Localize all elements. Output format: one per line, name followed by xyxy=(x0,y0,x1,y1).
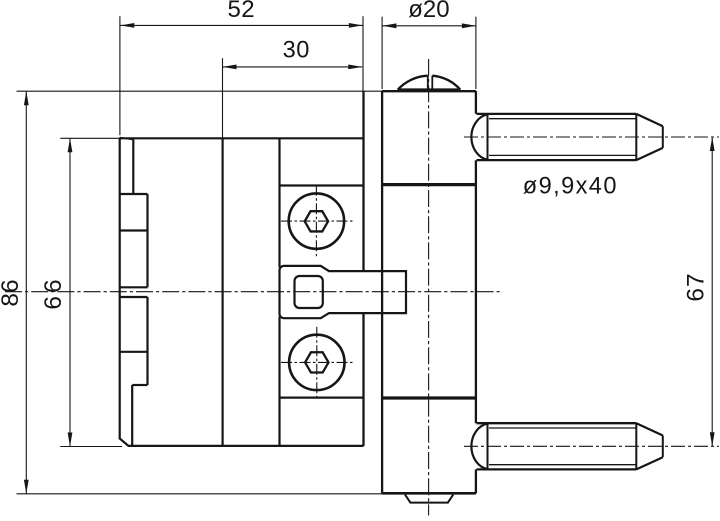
bottom pin centerline xyxy=(464,445,719,447)
dimension d20 line xyxy=(382,25,476,27)
body top edge xyxy=(120,137,364,139)
extension line x222 xyxy=(222,58,224,138)
boss top edge xyxy=(280,184,364,186)
body divider vertical x279 lower xyxy=(278,317,280,446)
dimension 52 line xyxy=(120,24,362,26)
dimension 66 line xyxy=(69,138,71,446)
extension line x120 xyxy=(119,16,121,135)
screw S2 vertical centerline xyxy=(316,327,318,401)
latch outline xyxy=(280,266,407,318)
bottom pin top edge xyxy=(477,422,637,424)
screw S2 hex socket xyxy=(305,352,328,372)
barrel band lower xyxy=(382,396,476,399)
svg-text:30: 30 xyxy=(283,38,310,64)
plate divider y230 xyxy=(120,229,148,231)
plate tab right edge lower xyxy=(146,297,148,385)
barrel left edge xyxy=(381,91,383,493)
bottom pin thread line lower xyxy=(489,464,636,466)
dimension 67 line xyxy=(711,137,713,446)
top pin cap junction line xyxy=(487,114,489,160)
bottom pin taper top xyxy=(636,423,663,435)
dimension d20 arrow right xyxy=(462,23,476,28)
dimension 86 arrow top xyxy=(24,91,29,105)
plate notch upper line xyxy=(120,286,148,288)
body bottom edge xyxy=(128,445,364,447)
dome slot left xyxy=(427,76,429,90)
top pin thread line upper xyxy=(489,118,636,120)
svg-text:67: 67 xyxy=(683,272,710,301)
wire horizontal main centerline xyxy=(5,291,503,293)
screw S1 vertical centerline xyxy=(315,185,317,257)
barrel right edge middle xyxy=(475,160,477,423)
dimension 67 arrow bottom xyxy=(710,432,715,446)
barrel right edge bottom xyxy=(475,469,477,493)
top pin tip face xyxy=(662,126,664,148)
dome cap right arc xyxy=(432,76,460,90)
dimension 52 arrow left xyxy=(120,23,134,28)
mounting plate left edge xyxy=(120,138,129,446)
bottom pin cap arc xyxy=(471,424,487,470)
plate divider y194 xyxy=(120,193,148,195)
barrel right edge upper xyxy=(475,91,477,114)
barrel band upper xyxy=(382,183,476,186)
body right edge upper xyxy=(362,91,364,271)
svg-text:ø9,9x40: ø9,9x40 xyxy=(523,174,618,200)
bottom pin bottom edge xyxy=(477,468,637,470)
top pin taper top xyxy=(636,114,663,126)
extension line y494 for 86 xyxy=(17,493,383,495)
top pin cap arc xyxy=(471,114,487,160)
wire barrel vertical centerline xyxy=(428,59,430,516)
dimension 30 line xyxy=(223,66,363,68)
bottom pin body end xyxy=(635,423,637,469)
extension line x363 mid xyxy=(362,91,364,138)
dome cap left arc xyxy=(398,76,428,90)
dimension 30 arrow left xyxy=(223,65,237,70)
dimension d20 arrow left xyxy=(382,23,396,28)
dimension 86 line xyxy=(25,91,27,494)
body divider vertical x222 xyxy=(222,138,224,446)
screw S2 horizontal centerline xyxy=(281,361,354,363)
plate divider y351 xyxy=(120,351,148,353)
top pin bottom edge xyxy=(477,159,637,161)
dome slot right xyxy=(431,76,433,90)
bottom pin cap junction line xyxy=(487,423,489,469)
plate notch lower line xyxy=(120,296,148,298)
dimension 30 arrow right xyxy=(348,65,362,70)
screw S1 circle xyxy=(289,193,344,248)
barrel top edge xyxy=(382,90,476,92)
screw S2 circle xyxy=(289,335,344,390)
screw S1 hex socket xyxy=(305,211,328,231)
dimension 52 arrow right xyxy=(349,23,363,28)
top pin thread line lower xyxy=(489,154,636,156)
boss bottom edge xyxy=(280,396,364,398)
latch square drive xyxy=(295,276,323,308)
plate divider y385 xyxy=(132,384,147,386)
plate tab right edge upper xyxy=(146,194,148,287)
plate right edge lower xyxy=(131,385,133,446)
dimension 66 arrow top xyxy=(68,138,73,152)
bottom pin taper bottom xyxy=(636,457,663,469)
top pin body end xyxy=(635,114,637,160)
plate top chamfer xyxy=(120,138,134,140)
plate right edge upper xyxy=(132,140,134,195)
bottom cap trapezoid xyxy=(405,495,453,503)
top pin top edge xyxy=(477,113,637,115)
dimension 86 arrow bottom xyxy=(24,480,29,494)
body divider vertical x279 upper xyxy=(278,138,280,268)
extension line y91 for 86 xyxy=(17,90,383,92)
extension line y138 for 66 xyxy=(60,137,119,139)
extension line x363 xyxy=(362,16,364,91)
svg-text:86: 86 xyxy=(0,279,24,306)
barrel bottom edge xyxy=(382,492,476,495)
top pin centerline xyxy=(464,136,719,138)
extension line y446 for 66 xyxy=(60,446,122,448)
svg-text:66: 66 xyxy=(40,276,67,309)
screw S1 horizontal centerline xyxy=(281,220,353,222)
top pin taper bottom xyxy=(636,148,663,160)
svg-text:ø20: ø20 xyxy=(408,0,449,23)
dimension 66 arrow bottom xyxy=(68,433,73,447)
svg-text:52: 52 xyxy=(227,0,255,23)
bottom pin thread line upper xyxy=(489,427,636,429)
extension line x476 xyxy=(475,17,477,89)
dome base line xyxy=(398,88,461,91)
body right edge lower xyxy=(362,313,364,446)
dimension 67 arrow top xyxy=(710,137,715,151)
bottom pin tip face xyxy=(662,436,664,458)
extension line x382 xyxy=(381,17,383,89)
